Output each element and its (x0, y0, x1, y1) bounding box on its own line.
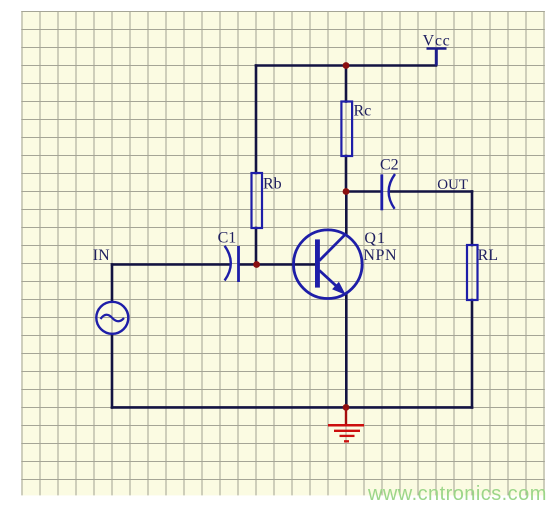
svg-text:OUT: OUT (437, 177, 468, 193)
svg-text:IN: IN (93, 247, 110, 264)
svg-text:C2: C2 (380, 156, 399, 173)
svg-text:Vcc: Vcc (423, 32, 451, 49)
svg-text:Q1: Q1 (364, 230, 386, 247)
svg-text:Rb: Rb (263, 175, 282, 192)
svg-text:NPN: NPN (363, 247, 397, 264)
svg-text:RL: RL (478, 247, 498, 264)
svg-text:C1: C1 (218, 230, 237, 247)
svg-text:www.cntronics.com: www.cntronics.com (367, 483, 547, 505)
svg-text:Rc: Rc (354, 103, 372, 120)
